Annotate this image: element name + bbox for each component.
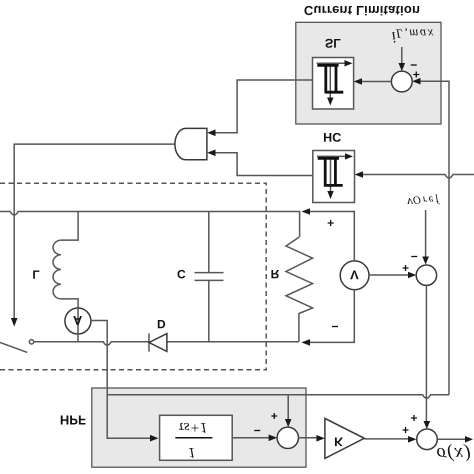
svg-text:+: + <box>402 261 409 275</box>
svg-text:−: − <box>331 320 338 334</box>
svg-text:vOref: vOref <box>407 194 441 211</box>
wire iL feedforward with hop <box>107 395 449 399</box>
summing junction SL <box>391 71 412 92</box>
dashed converter boundary <box>0 183 266 370</box>
svg-text:V: V <box>350 268 359 283</box>
svg-text:A: A <box>73 313 82 328</box>
svg-text:SL: SL <box>325 36 341 50</box>
summing junction HPF <box>277 427 298 448</box>
svg-text:HC: HC <box>323 130 341 144</box>
wire top rail with hop over gate line <box>0 212 300 238</box>
diode D <box>149 317 167 352</box>
svg-text:R: R <box>271 267 280 281</box>
capacitor C branch wire upper <box>208 212 210 273</box>
wire vOref into v sum <box>425 210 427 257</box>
voltmeter V <box>340 261 369 290</box>
capacitor C branch wire lower <box>208 281 210 342</box>
capacitor C plates <box>195 273 224 281</box>
arrowhead down at switch <box>11 318 18 327</box>
transfer function box <box>160 415 233 460</box>
wire HPF sum to K <box>299 437 317 439</box>
switch contact <box>29 340 33 344</box>
SL block <box>313 36 354 109</box>
svg-text:−: − <box>411 250 418 264</box>
summing junction final <box>417 429 438 450</box>
svg-text:τs+1: τs+1 <box>178 419 207 435</box>
AND gate <box>175 128 207 159</box>
gate drive wire from AND gate <box>14 144 175 318</box>
svg-text:−: − <box>254 424 261 438</box>
output wire sigma <box>437 438 465 440</box>
grey box HPF <box>92 388 306 467</box>
wire SL sum to SL block <box>362 81 391 83</box>
svg-text:+: + <box>410 411 417 425</box>
wire voltmeter top to R node <box>310 212 354 261</box>
summing junction v_Oref <box>416 265 436 285</box>
svg-text:HPF: HPF <box>60 412 86 427</box>
wire HC input from right edge with hop <box>363 175 474 179</box>
wire bottom rail with hop over ammeter tap <box>34 342 299 346</box>
svg-text:+: + <box>402 423 409 437</box>
ammeter A <box>65 308 91 334</box>
wire AND lower input from HC <box>216 153 313 176</box>
arrowhead into AND lower input <box>207 150 215 157</box>
wire K to final sum <box>364 438 408 440</box>
inductor L branch wire <box>61 212 78 241</box>
wire iL feedback up right side into SL sum <box>421 81 450 395</box>
svg-text:σ(x): σ(x) <box>437 443 472 464</box>
svg-text:K: K <box>334 434 343 448</box>
wire TF box to HPF sum <box>232 437 268 439</box>
svg-text:+: + <box>327 216 334 230</box>
wire branch down into HPF sum <box>287 395 289 419</box>
ammeter tap wire down to HPF <box>90 321 150 439</box>
HC block <box>313 130 355 203</box>
voltage error path: voltmeter to v sum <box>369 274 409 276</box>
wire coil to ammeter <box>61 299 78 309</box>
svg-text:Current Limitation: Current Limitation <box>304 3 420 18</box>
svg-text:1: 1 <box>188 444 196 460</box>
resistor R <box>286 237 313 342</box>
wire iLmax into SL sum <box>401 47 403 63</box>
wire AND upper input from SL <box>216 80 313 133</box>
arrowhead into AND upper input <box>207 130 215 137</box>
wire v sum down to final sum <box>425 285 427 421</box>
wire voltmeter bottom to R node <box>310 290 354 343</box>
svg-text:L: L <box>32 267 39 281</box>
gain K <box>325 418 364 458</box>
inductor L coil <box>53 240 61 299</box>
svg-text:+: + <box>271 409 278 423</box>
switch blade <box>0 342 27 352</box>
svg-text:D: D <box>157 317 166 331</box>
svg-text:C: C <box>177 267 186 281</box>
grey box Current Limitation <box>296 22 441 124</box>
